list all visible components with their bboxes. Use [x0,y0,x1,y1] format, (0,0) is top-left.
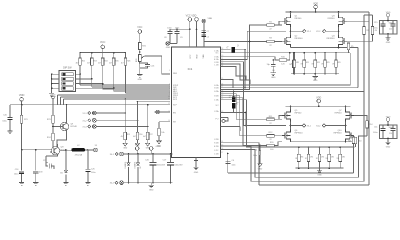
resistor R26 [124,53,126,58]
svg-text:X4-1: X4-1 [110,154,114,156]
svg-text:R18: R18 [348,140,351,142]
resistor R134 sense [339,146,341,148]
svg-text:C6: C6 [232,160,234,162]
svg-text:IRF9540: IRF9540 [295,38,304,40]
svg-text:0R5: 0R5 [317,62,320,64]
svg-text:0R5: 0R5 [296,62,299,64]
svg-text:100u: 100u [373,132,377,134]
svg-text:E 1A: E 1A [214,58,219,61]
svg-text:4k7: 4k7 [109,63,112,65]
wire 5V rail [22,144,72,156]
resistor R133 sense [328,146,330,148]
svg-text:O 2A: O 2A [214,110,219,113]
node OUT1B [338,30,340,32]
resistor R24 [52,127,54,134]
svg-text:1N4007B: 1N4007B [134,162,136,169]
wire right leg [345,106,347,142]
wire top rail [286,105,351,107]
ground top [170,43,177,45]
ground [258,164,262,167]
resistor R21 [21,105,23,116]
capacitor C11 [380,125,398,139]
capacitor C26 [152,154,154,162]
node OUT1A [290,30,292,32]
resistor R2 [363,27,365,35]
svg-text:VDD: VDD [135,144,140,146]
svg-text:GND: GND [166,47,171,49]
trimmer R30 [139,50,141,55]
transistor Q3 IRF540 [339,15,348,27]
resistor R16 [136,132,139,139]
wire gate1A riser [221,25,267,90]
wire stub 117 [221,118,229,122]
wire right gate A2 [347,15,373,41]
svg-text:IC1: IC1 [188,67,193,71]
capacitor C24 [21,150,23,171]
wire ac bottom [123,182,172,184]
resistor R60 sense [294,52,296,54]
wire R30 bottom [139,63,141,74]
svg-text:3: 3 [169,70,170,72]
wire left leg [290,12,292,48]
svg-text:IRF9540: IRF9540 [327,38,336,40]
svg-text:37: 37 [221,152,223,154]
wire sense bus top [291,52,350,54]
resistor R19 [159,122,170,129]
capacitor C5 [232,103,235,109]
svg-text:0R5: 0R5 [310,156,313,158]
wire bottom rail [291,141,356,143]
svg-text:O 2C: O 2C [214,150,219,152]
svg-text:X1-2: X1-2 [83,120,87,122]
resistor R23 [91,53,93,58]
svg-text:R22: R22 [82,61,85,63]
capacitor C23 [35,150,37,171]
ground [7,131,12,134]
svg-text:IRF540: IRF540 [328,18,336,20]
ground sense [314,74,316,76]
resistor R132 sense [319,146,321,148]
ground [19,183,24,186]
wire stub low [221,80,234,88]
pin numbers right [221,48,223,154]
wire input row [96,126,148,128]
wire OUT1A to bridge [221,31,287,59]
svg-text:GND: GND [123,148,128,150]
resistor R23 [52,99,54,115]
svg-text:GND: GND [317,175,322,177]
svg-text:0R5: 0R5 [300,156,303,158]
capacitor C4 [259,146,261,151]
resistor R24 [102,53,104,58]
svg-text:R16: R16 [139,134,142,136]
transistor Q6 IRF9540 [282,130,291,142]
svg-text:IRF540: IRF540 [335,113,343,115]
svg-text:BC548: BC548 [71,126,78,128]
wire top rail [286,11,344,13]
wire VDD rail [10,104,170,106]
svg-text:VBB: VBB [203,54,205,59]
svg-text:VCC: VCC [137,26,142,29]
wire col 3 [147,105,149,132]
wire pullup bus [80,52,125,54]
svg-text:C7: C7 [207,31,209,33]
resistor R17 [293,53,295,61]
svg-text:C12: C12 [389,29,392,31]
wire stub 126 [221,127,241,132]
svg-text:O 2B: O 2B [214,139,219,141]
resistor R31 [139,33,141,42]
wire bottom rail [291,47,349,49]
svg-text:4k7: 4k7 [133,136,136,138]
svg-text:R17: R17 [150,134,153,136]
svg-text:X1-3: X1-3 [83,127,87,129]
svg-text:E 2B: E 2B [214,146,219,148]
wire source1 return [221,48,359,88]
svg-text:0R5: 0R5 [331,156,334,158]
wire pfd2 [221,98,267,146]
svg-text:0R5: 0R5 [306,62,309,64]
svg-text:470u/1A: 470u/1A [75,153,83,156]
ground arrow [157,141,161,144]
svg-text:10k: 10k [161,132,164,134]
wire switch common [52,74,59,93]
resistor R64 sense [335,52,337,54]
svg-text:GND: GND [258,168,263,170]
svg-text:100n: 100n [232,164,236,166]
svg-text:G 1B: G 1B [214,88,219,90]
wire switch rows to resistors [76,74,114,88]
wire cp [244,50,246,88]
wire IC gnd [195,158,197,168]
transistor Q7 IRF540 [346,110,355,122]
wire sense1 return [221,53,351,85]
ground rect [150,183,152,185]
svg-text:0R5: 0R5 [327,62,330,64]
transistor Q2 IRF9540 [282,35,291,47]
svg-text:1000u/35V: 1000u/35V [157,165,166,167]
wire R20 left [260,145,267,147]
svg-text:GND: GND [386,42,391,44]
wire wrap 2 [354,116,367,121]
svg-text:GND: GND [313,80,318,82]
svg-text:GND: GND [51,94,56,96]
resistor R17 [146,132,149,139]
capacitor C16 [139,62,141,64]
svg-text:G 2B: G 2B [214,95,219,97]
svg-text:S 2B: S 2B [214,143,219,145]
transistor Q5 IRF540 [282,110,291,122]
resistor R62 sense [314,52,316,54]
connector test point [221,120,222,122]
diode D2 [137,154,139,163]
connector X5 [94,148,98,152]
wire DIR line [138,101,171,103]
svg-text:GND: GND [149,190,154,192]
ground box [387,34,389,38]
wire 5V out [85,149,93,151]
capacitor C6 [272,60,274,64]
svg-text:IRF540: IRF540 [295,18,303,20]
wire right gate A1 [344,12,370,21]
wire Q9 [53,105,67,147]
svg-text:C 2A: C 2A [214,98,219,101]
ground [49,94,54,97]
svg-text:GND: GND [386,146,391,148]
svg-text:100u: 100u [91,172,95,174]
capacitor C15 [380,21,398,35]
wire gate1B riser [250,41,267,43]
svg-text:R4: R4 [375,30,377,32]
wire wrap 4 [221,18,370,185]
svg-text:100u: 100u [373,28,377,30]
ground [271,73,276,76]
svg-text:GND: GND [156,146,161,148]
svg-text:C2: C2 [207,37,209,39]
svg-text:1000u/35V: 1000u/35V [174,165,183,167]
capacitor C1 (charge pump) [221,49,231,51]
resistor R5 [347,43,350,50]
svg-text:0R5: 0R5 [342,156,345,158]
resistor R61 sense [303,52,305,54]
svg-text:IRF9540: IRF9540 [295,133,304,135]
wire wrap 1 [353,136,356,138]
svg-text:D2: D2 [140,166,142,168]
svg-text:GND: GND [271,77,276,79]
wire stub O1B [221,64,251,84]
wire gate2A [221,94,270,120]
connector jumper SLEEP [156,110,160,114]
node OUT2B [345,125,347,127]
transistor Q8 BC639 [51,147,59,155]
ground arrow [135,143,139,146]
ground [85,183,90,186]
transistor Q10 IRF9540 [346,130,355,142]
wire col 1 [124,99,126,132]
resistor R10 [354,137,357,144]
svg-text:L 1B: L 1B [214,65,219,67]
transistor Q9 BC548 [60,122,68,130]
svg-text:IRF9540: IRF9540 [334,133,343,135]
wire gate2B [221,96,270,136]
svg-text:R26: R26 [127,61,130,63]
resistor R63 sense [324,52,326,54]
wire logic bus STEP/DIR/MD [58,85,170,99]
transistor Q4 IRF9540 [339,35,348,47]
svg-text:VBB: VBB [208,18,213,20]
resistor R22 [79,53,81,58]
svg-text:C10: C10 [389,133,392,135]
wire ac top [123,153,172,155]
capacitor C25 [87,150,89,169]
resistor R131 sense [308,146,310,148]
svg-text:4k7: 4k7 [87,63,90,65]
ground IC [193,167,198,170]
capacitor C27 [170,154,172,162]
svg-text:R14: R14 [369,124,372,126]
wire input row [96,119,137,121]
wire sense1 [221,52,351,54]
wire stub S1B [221,66,247,80]
ground [137,75,142,78]
resistor R4 [371,27,373,35]
svg-text:VCC: VCC [190,54,192,59]
svg-text:VDD: VDD [197,54,199,59]
svg-text:0R5: 0R5 [338,62,341,64]
wire sense bus top [295,146,354,148]
node OUT2A [290,125,292,127]
svg-text:100u: 100u [2,121,6,123]
capacitor C20 [9,105,11,117]
svg-text:R5: R5 [351,46,353,48]
capacitor C22 [46,156,50,163]
pin numbers left [168,70,170,122]
svg-text:GND: GND [138,79,143,81]
svg-text:X4-2: X4-2 [110,183,114,185]
svg-text:GND: GND [194,172,199,174]
svg-text:R23: R23 [94,61,97,63]
wire supply drops [190,21,204,47]
resistor R15 [124,132,127,139]
capacitor C7 [202,30,206,32]
svg-text:X1-1: X1-1 [83,113,87,115]
diode D1 [128,154,130,163]
svg-text:G 2A: G 2A [214,90,219,93]
svg-text:11: 11 [168,97,170,99]
svg-text:1N4007B: 1N4007B [125,162,127,169]
svg-text:4k7: 4k7 [76,63,79,65]
capacitor C3 [221,35,365,92]
svg-text:R24: R24 [105,61,108,63]
wire sense bus bottom [291,73,339,75]
svg-text:DIP SW: DIP SW [63,67,72,70]
ground arrow [146,143,150,146]
svg-text:VDD: VDD [19,93,25,97]
svg-text:100u: 100u [14,173,18,175]
wire wrap 3 [221,35,365,182]
svg-text:4k7: 4k7 [121,63,124,65]
diode D6 zener [65,150,67,170]
wire C17 column [227,154,229,174]
ground sense [319,168,321,170]
wire OUT2A to bridge [221,62,287,126]
svg-text:4k7: 4k7 [98,63,101,65]
ground [33,183,38,186]
transistor Q1 IRF540 [282,15,291,27]
op-amp U IC1 A3977 [172,47,221,158]
wire sense bus bottom [295,167,343,169]
svg-text:VCC VDD: VCC VDD [186,15,197,18]
wire VBB rail [204,38,253,42]
svg-text:IRF540: IRF540 [295,113,303,115]
wire REF [145,56,171,74]
wire left leg [290,106,292,142]
svg-text:R15: R15 [127,134,130,136]
svg-text:R25: R25 [116,61,119,63]
svg-text:0R5: 0R5 [321,156,324,158]
svg-text:C 2B: C 2B [214,153,219,155]
resistor R25 [113,53,115,58]
wire right leg [338,12,340,48]
wire mid stub [234,113,246,126]
svg-text:SLP: SLP [173,105,177,107]
svg-text:4k7: 4k7 [121,136,124,138]
resistor R130 sense [298,146,300,148]
wire sense2 feed [221,100,296,147]
wire col 2 [137,102,139,132]
svg-text:R2: R2 [367,30,369,32]
ground [63,183,68,186]
wire input row [96,112,125,114]
ground arrow [123,143,127,146]
wire col hooks [58,95,64,105]
svg-text:4k7: 4k7 [143,136,146,138]
svg-text:VCC: VCC [100,40,106,44]
ground box [387,139,389,143]
capacitor C2 [202,34,206,36]
resistor R16 [221,57,280,60]
